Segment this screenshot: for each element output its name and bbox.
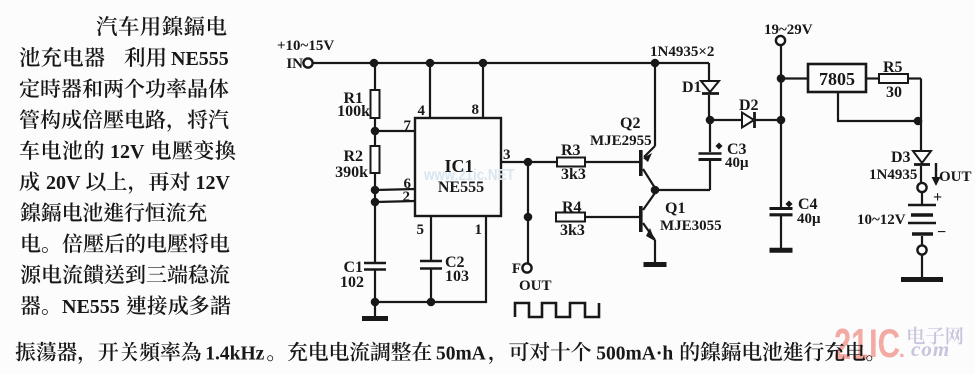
svg-text:Q1: Q1 xyxy=(665,200,685,217)
svg-text:103: 103 xyxy=(445,268,469,285)
paragraph line3 xyxy=(20,78,229,98)
wire 7805 ground leg xyxy=(838,92,918,121)
node junction C1 bottom xyxy=(371,298,380,307)
wire R5 to D3 column xyxy=(908,77,921,79)
svg-text:390k: 390k xyxy=(335,164,368,181)
svg-text:3k3: 3k3 xyxy=(560,222,585,239)
svg-text:OUT: OUT xyxy=(939,169,972,185)
svg-text:3: 3 xyxy=(503,147,511,163)
svg-text:12V: 12V xyxy=(110,141,145,163)
svg-text:−: − xyxy=(937,224,946,241)
svg-text:+10~15V: +10~15V xyxy=(277,38,334,54)
node junction Q2/Q1 collectors xyxy=(651,186,660,195)
svg-text:40μ: 40μ xyxy=(797,211,821,227)
wire to 7805 xyxy=(781,77,808,79)
svg-text:.: . xyxy=(899,339,905,362)
svg-text:4: 4 xyxy=(418,103,426,119)
paragraph line10 xyxy=(21,296,48,315)
wire battery to terminal xyxy=(921,236,923,245)
svg-text:100k: 100k xyxy=(337,103,370,120)
paragraph line5 xyxy=(20,140,104,160)
node junction D1/D2/C3 xyxy=(706,116,715,125)
node junction R1 top xyxy=(370,59,379,68)
svg-text:MJE3055: MJE3055 xyxy=(660,218,722,234)
wire C4 to bar xyxy=(780,215,782,248)
svg-text:500mA·h: 500mA·h xyxy=(596,344,673,365)
node junction pin6 xyxy=(371,186,380,195)
svg-text:40μ: 40μ xyxy=(725,155,749,171)
wire to ground xyxy=(921,255,923,277)
wire rail corner down to D1 xyxy=(708,63,710,81)
node junction D2 xyxy=(777,116,786,125)
resistor R4 xyxy=(556,213,585,222)
wire R3 to Q2 base xyxy=(585,161,639,163)
wire to battery xyxy=(921,192,923,204)
ground below Q1 xyxy=(644,262,667,267)
wire pin6 xyxy=(375,189,415,190)
paragraph line9 xyxy=(21,264,230,284)
wire rail to R1 xyxy=(374,63,376,90)
svg-text:F: F xyxy=(512,261,521,277)
node battery minus terminal xyxy=(917,245,926,254)
wire pin2 xyxy=(375,201,415,202)
paragraph line8 xyxy=(22,233,229,253)
wire bottom rail xyxy=(375,301,487,303)
svg-text:50mA: 50mA xyxy=(436,344,486,365)
pin 4 xyxy=(429,63,431,118)
svg-text:+: + xyxy=(933,189,942,206)
svg-text:12V: 12V xyxy=(195,172,230,194)
svg-text:IC1: IC1 xyxy=(444,156,473,176)
wire C2 to bottom rail xyxy=(430,268,432,302)
svg-text:NE555: NE555 xyxy=(171,48,229,70)
svg-text:1N4935×2: 1N4935×2 xyxy=(650,44,714,60)
node junction Q2 emitter xyxy=(651,59,660,68)
svg-text:R4: R4 xyxy=(562,199,582,216)
wire main top rail xyxy=(313,62,709,64)
capacitor C1 xyxy=(364,262,386,265)
square wave symbol xyxy=(515,303,599,317)
svg-text:7: 7 xyxy=(404,118,412,134)
svg-text:NE555: NE555 xyxy=(62,296,120,318)
capacitor C3 xyxy=(709,120,711,152)
node junction R4 xyxy=(524,213,533,222)
svg-text:com: com xyxy=(911,337,950,361)
svg-text:2: 2 xyxy=(403,189,411,205)
capacitor C4 xyxy=(770,207,793,210)
wire 19-29V vertical xyxy=(780,45,782,207)
svg-text:OUT: OUT xyxy=(519,278,552,294)
wire R1 to R2 xyxy=(374,118,376,146)
node junction R1/R2/pin7 xyxy=(371,127,380,136)
svg-text:3k3: 3k3 xyxy=(561,166,586,183)
paragraph line6 xyxy=(20,171,40,191)
pin 3 xyxy=(501,161,557,163)
wire collectors to C3 branch xyxy=(655,189,710,191)
wire pin3 down to R4 xyxy=(527,162,529,217)
svg-text:MJE2955: MJE2955 xyxy=(590,133,652,149)
svg-text:1: 1 xyxy=(475,222,483,238)
paragraph bottom line xyxy=(16,342,201,364)
capacitor C2 xyxy=(420,260,442,263)
node junction C2 bottom xyxy=(427,298,436,307)
ground below C4 xyxy=(770,248,793,253)
node junction pin2 xyxy=(371,198,380,207)
resistor R5 xyxy=(879,74,908,83)
ground below battery xyxy=(901,277,943,282)
paragraph line4 xyxy=(20,109,229,131)
paragraph line1 title xyxy=(97,16,227,36)
resistor R1 xyxy=(371,90,380,118)
node junction 7805 input xyxy=(777,74,786,83)
svg-text:30: 30 xyxy=(886,84,902,101)
pin 8 xyxy=(482,63,484,118)
svg-text:5: 5 xyxy=(417,222,425,238)
node F OUT terminal xyxy=(522,263,531,272)
paragraph line7 xyxy=(21,202,207,222)
svg-text:1.4kHz: 1.4kHz xyxy=(205,344,264,365)
node junction pin4 xyxy=(426,59,435,68)
node junction 7805 gnd / R5 xyxy=(914,117,923,126)
pin 1 xyxy=(485,216,487,303)
paragraph line2 xyxy=(20,47,105,67)
svg-text:D1: D1 xyxy=(682,79,702,96)
op-amp IC1 NE555 box xyxy=(415,118,501,216)
wire pin7 xyxy=(375,130,415,132)
ground below C1 xyxy=(362,316,388,321)
svg-text:R3: R3 xyxy=(561,142,581,159)
svg-text:1N4935: 1N4935 xyxy=(869,167,917,183)
OUT arrow xyxy=(935,163,937,180)
svg-text:NE555: NE555 xyxy=(438,179,484,196)
svg-text:21: 21 xyxy=(834,321,868,369)
wire R2 to C1 xyxy=(374,173,376,263)
svg-text:R5: R5 xyxy=(883,59,903,76)
wire R4 to Q1 base xyxy=(585,216,639,218)
svg-text:19~29V: 19~29V xyxy=(764,22,813,38)
node junction pin8 xyxy=(479,59,488,68)
svg-text:IN: IN xyxy=(286,56,303,72)
svg-text:7805: 7805 xyxy=(819,69,855,89)
svg-text:102: 102 xyxy=(340,274,364,291)
watermark dianziwang xyxy=(908,327,963,345)
svg-text:D3: D3 xyxy=(891,149,911,166)
wire Q1 emitter to ground xyxy=(654,240,656,262)
svg-text:10~12V: 10~12V xyxy=(857,212,906,228)
svg-text:IC: IC xyxy=(869,321,900,366)
svg-text:Q2: Q2 xyxy=(620,115,640,132)
wire down to F OUT xyxy=(527,217,529,263)
pin 5 xyxy=(430,216,432,261)
regulator 7805 xyxy=(808,64,866,92)
svg-text:R2: R2 xyxy=(343,148,363,165)
wire 7805 out xyxy=(866,77,879,79)
svg-text:8: 8 xyxy=(472,102,480,118)
node output terminal xyxy=(917,183,926,192)
svg-text:20V: 20V xyxy=(46,172,81,194)
node junction pin3/R3 xyxy=(524,158,533,167)
resistor R2 xyxy=(371,146,380,173)
resistor R3 xyxy=(557,158,585,167)
wire C1 to ground xyxy=(374,269,376,316)
